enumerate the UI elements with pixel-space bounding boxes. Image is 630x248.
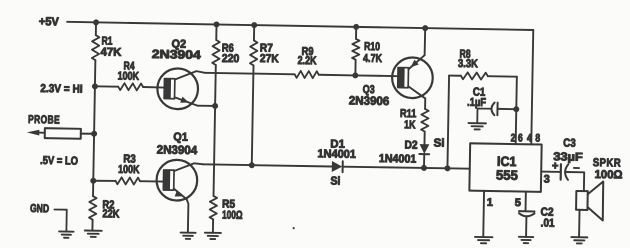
wire node LO to R2 (92, 181, 94, 196)
pin 1 wire (482, 191, 485, 237)
svg-text:2.3V = HI: 2.3V = HI (40, 83, 83, 96)
resistor R5 (210, 196, 218, 220)
ground under R2 (85, 229, 102, 231)
resistor R8 (461, 72, 488, 79)
svg-text:1K: 1K (404, 119, 416, 131)
wire to R8 (449, 75, 461, 77)
speaker cone (587, 181, 603, 220)
wire R10 to base node (354, 60, 356, 76)
wire R3 to Q1 base (140, 180, 164, 182)
ground under speaker (571, 236, 587, 238)
svg-text:3.3K: 3.3K (458, 58, 479, 70)
junction D2 / trigger line (421, 165, 427, 171)
junction probe node (91, 131, 97, 137)
wire rail right drop to IC1 pins 4,8 (531, 30, 533, 144)
resistor R4 (118, 83, 143, 90)
resistor R1 (92, 35, 100, 60)
svg-text:.5V = LO: .5V = LO (40, 155, 78, 168)
resistor R10 (352, 39, 360, 60)
wire R8 to right vertical (488, 75, 517, 78)
wire R8 right vertical to IC1 pins 2,6 (516, 77, 517, 144)
node +5V supply rail wire (67, 22, 533, 30)
wire rail to R10 (355, 27, 357, 39)
svg-text:D2: D2 (404, 139, 417, 151)
svg-text:8: 8 (535, 132, 540, 144)
junction node LO / R3 (90, 178, 96, 184)
resistor R3 (115, 177, 140, 184)
wire R1 to node HI (94, 60, 96, 86)
transistor Q1 collector (174, 163, 203, 172)
wire R8 left vertical (447, 76, 449, 169)
wire rail to R7 (253, 25, 255, 40)
wire R9 to R10 node (319, 74, 356, 77)
junction rail/Q3 emitter (422, 25, 428, 31)
ground under Q1 emitter (181, 232, 196, 234)
transistor Q3 body (392, 57, 433, 98)
svg-text:27K: 27K (260, 53, 280, 65)
svg-text:+: + (552, 160, 559, 172)
wire R2 to ground (91, 220, 93, 231)
svg-text:PROBE: PROBE (28, 114, 60, 127)
speck artifact (292, 227, 294, 229)
resistor R7 (250, 40, 258, 65)
junction rail/R7 (251, 22, 257, 28)
wire C1 to node (497, 108, 516, 110)
transistor Q1 base bar (163, 170, 174, 190)
svg-text:100K: 100K (118, 164, 140, 176)
wire Q2 emitter to R6/R5 node (197, 105, 215, 107)
wire R11 to D2 (423, 132, 425, 145)
svg-text:555: 555 (496, 168, 519, 183)
transistor Q3 emitter (408, 55, 424, 70)
svg-text:2N3906: 2N3906 (349, 93, 390, 108)
transistor Q2 body (157, 68, 198, 109)
wire R7 to Q1 collector node (252, 65, 254, 165)
transistor Q2 emitter (175, 97, 198, 105)
svg-text:R10: R10 (364, 41, 380, 53)
transistor Q2 collector (175, 71, 205, 80)
ground under pin 1 (475, 236, 492, 238)
wire rail to R6 (215, 24, 217, 39)
capacitor C1 (496, 103, 498, 116)
junction rail/R6 (213, 21, 219, 27)
ground under C2 (519, 236, 533, 238)
svg-text:2.2K: 2.2K (297, 55, 317, 67)
svg-text:1N4001: 1N4001 (379, 153, 417, 166)
junction R7 / Q1 collector (249, 162, 255, 168)
svg-text:5: 5 (515, 197, 521, 209)
svg-text:47K: 47K (100, 47, 122, 59)
svg-text:4.7K: 4.7K (363, 53, 383, 65)
pin 3 wire (541, 171, 560, 173)
junction C1 node (513, 106, 519, 112)
ground GND symbol (59, 230, 73, 232)
junction rail/R1 (93, 19, 99, 25)
capacitor C3 (560, 164, 562, 179)
probe body (45, 128, 81, 139)
wire R4 to Q2 base (143, 86, 165, 89)
wire node HI to R4 (95, 85, 118, 88)
op-amp IC1 555 box (469, 143, 541, 192)
ground under C1 (468, 122, 485, 124)
transistor Q2 base bar (164, 79, 175, 99)
svg-text:22K: 22K (102, 208, 120, 220)
svg-text:1N4001: 1N4001 (317, 148, 356, 161)
wire D1 to D2 node (343, 166, 424, 168)
junction node HI / R4 (92, 83, 98, 89)
diode D2 (419, 144, 429, 154)
resistor R9 (295, 71, 319, 78)
svg-text:3: 3 (544, 174, 550, 186)
wire to Q3 base (355, 74, 398, 77)
svg-text:+5V: +5V (39, 15, 59, 28)
wire speaker to ground (578, 210, 580, 237)
junction Q2 emitter / R6 / R5 (212, 103, 218, 109)
junction R10 / Q3 base (352, 72, 358, 78)
svg-text:1: 1 (487, 197, 493, 209)
wire GND stub (54, 209, 67, 231)
wire D2 to trigger line (423, 154, 425, 168)
resistor R11 (421, 109, 429, 132)
wire C3 to speaker (566, 172, 584, 191)
transistor Q3 base bar (398, 68, 409, 88)
svg-text:100Ω: 100Ω (594, 169, 622, 181)
wire node LO to R3 (93, 180, 115, 183)
wire probe shaft (38, 132, 45, 134)
wire probe body to line (81, 133, 94, 135)
wire Q3 emitter to rail (424, 28, 427, 55)
speaker body (576, 191, 588, 210)
probe tip arrow (27, 129, 40, 135)
wire probe vertical line (95, 22, 97, 35)
wire C1 to ground (477, 109, 491, 124)
svg-text:220: 220 (222, 53, 240, 65)
transistor Q1 emitter (173, 189, 189, 233)
wire C2 to ground (525, 217, 527, 237)
junction R8 / trigger line (444, 165, 450, 171)
svg-text:SPKR: SPKR (593, 157, 622, 169)
wire emitter node down to R5 (214, 106, 216, 196)
resistor R2 (89, 196, 97, 220)
svg-text:2N3904: 2N3904 (157, 143, 198, 158)
pin 5 wire (525, 192, 527, 212)
resistor R6 (212, 40, 220, 65)
diode D1 (332, 161, 342, 172)
wire into IC1 (447, 167, 469, 169)
capacitor C2 (519, 210, 534, 212)
junction rail/R10 (353, 24, 359, 30)
svg-text:C3: C3 (563, 138, 576, 150)
svg-text:2: 2 (511, 132, 516, 144)
svg-text:6: 6 (518, 132, 523, 144)
wire probe node to node LO (92, 134, 95, 181)
svg-text:Si: Si (433, 137, 444, 149)
transistor Q3 collector (408, 86, 426, 109)
ground under R5 (205, 232, 221, 234)
wire Q2 collector line (205, 73, 295, 75)
wire node HI to probe node (93, 86, 96, 133)
svg-text:GND: GND (30, 203, 49, 215)
svg-text:100Ω: 100Ω (222, 209, 243, 221)
svg-text:.01: .01 (540, 217, 555, 229)
wire collector line to D1 (203, 164, 332, 166)
svg-text:100K: 100K (117, 71, 139, 83)
transistor Q1 body (156, 160, 197, 201)
svg-text:.1µF: .1µF (467, 97, 486, 109)
wire R6 to Q2 emitter node (214, 65, 217, 106)
svg-text:2N3904: 2N3904 (152, 47, 202, 62)
svg-text:Si: Si (330, 175, 340, 187)
wire D2 node to R8 node (424, 167, 447, 169)
wire R5 to ground (212, 219, 214, 232)
